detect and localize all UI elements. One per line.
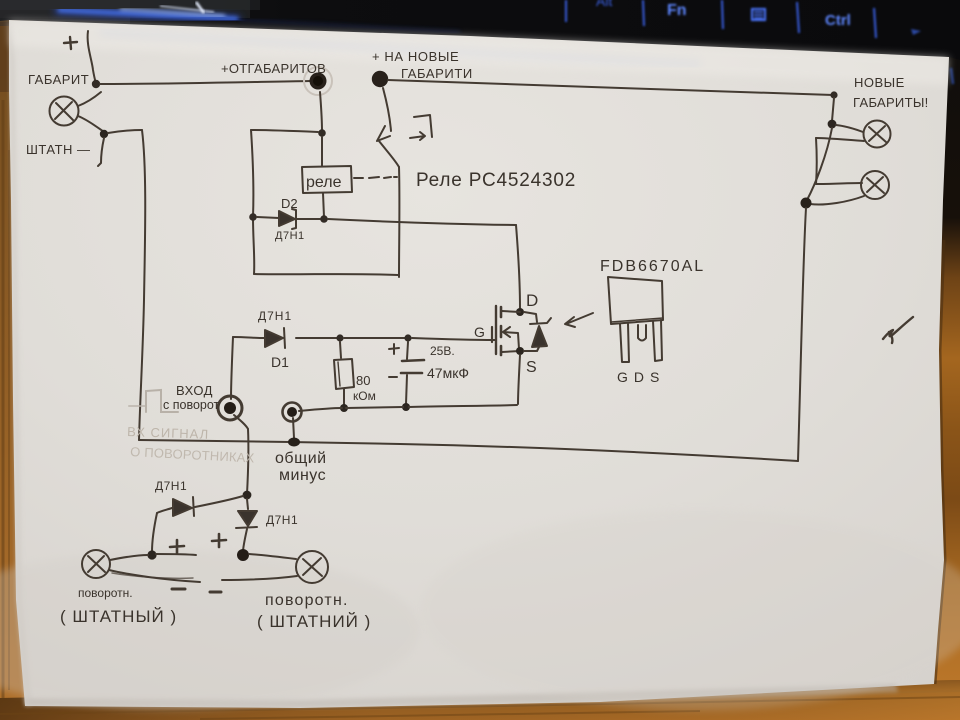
svg-text:Alt: Alt — [596, 0, 612, 9]
wire down to lamp1 junction — [832, 98, 834, 121]
node blob right feed — [801, 198, 812, 209]
wire switch vertical right — [398, 167, 400, 277]
svg-text:Ctrl: Ctrl — [825, 12, 851, 29]
wire lamp2 lead B to blob — [810, 196, 864, 205]
keyboard blue glow strip — [55, 2, 460, 32]
node D2 left junction — [249, 213, 257, 221]
plus sign left — [170, 540, 184, 553]
keyboard fabric texture left — [0, 0, 250, 18]
paper shading — [9, 20, 949, 85]
svg-text:GDS: GDS — [617, 369, 665, 385]
wire lamp1 lead B to left vertical — [816, 138, 864, 141]
node input turn signal — [218, 396, 242, 420]
wire minus ring stem — [293, 418, 294, 438]
stub below shtatn junction — [98, 138, 104, 166]
wire lower vertical to turn section — [247, 429, 248, 494]
node resistor bottom junction — [340, 404, 348, 412]
svg-text:минус: минус — [279, 467, 326, 484]
MOSFET U1 — [490, 306, 524, 355]
node common minus ring — [283, 403, 302, 422]
wire input node to lower vertical — [234, 415, 248, 429]
wire TL2 minus lead — [222, 576, 297, 580]
wire right vertical long — [798, 208, 806, 461]
wire top rail gabarit to blob — [100, 81, 310, 84]
svg-text:FDB6670AL: FDB6670AL — [600, 258, 705, 275]
svg-text:( ШТАТНИЙ ): ( ШТАТНИЙ ) — [257, 612, 371, 631]
svg-text:ШТАТН —: ШТАТН — — [26, 142, 91, 157]
switch feed from blob — [383, 88, 391, 131]
svg-text:ГАБАРИТ: ГАБАРИТ — [28, 72, 89, 87]
svg-text:Fn: Fn — [667, 2, 687, 19]
wire source down — [518, 355, 520, 404]
switch small arrow — [410, 132, 425, 140]
faint pencil text — [127, 424, 255, 466]
plus sign right — [212, 534, 226, 547]
node minus rail blob — [288, 438, 300, 447]
svg-text:с поворот: с поворот — [163, 398, 220, 412]
svg-text:поворотн.: поворотн. — [265, 592, 349, 609]
svg-text:+ОТГАБАРИТОВ: +ОТГАБАРИТОВ — [221, 61, 326, 76]
wire relay coil top lead — [321, 137, 323, 166]
wire feed slant to blob — [807, 128, 832, 200]
svg-text:Д7Н1: Д7Н1 — [155, 479, 187, 493]
annotation arrow to zener — [565, 313, 593, 327]
wire drain vertical — [516, 225, 520, 308]
svg-text:S: S — [526, 359, 537, 376]
node D2 right junction — [320, 215, 328, 223]
svg-text:НОВЫЕ: НОВЫЕ — [854, 75, 905, 90]
wood right side — [890, 50, 960, 720]
wire relay coil bottom lead — [323, 193, 324, 217]
lamp TL1 turn left — [82, 550, 110, 578]
wire from plus down to gabarit node — [88, 31, 96, 84]
svg-text:общий: общий — [275, 450, 327, 467]
capacitor C1 — [389, 342, 424, 404]
svg-text:D1: D1 — [271, 354, 289, 370]
switch arrowhead — [377, 126, 390, 141]
svg-text:Д7Н1: Д7Н1 — [266, 513, 298, 527]
wire left vertical between lamps — [815, 138, 818, 184]
wire TL1 minus lead — [109, 570, 200, 582]
wire rail cap to gate — [412, 338, 494, 340]
node cap bottom junction — [402, 403, 410, 411]
svg-text:ГАБАРИТЫ!: ГАБАРИТЫ! — [853, 95, 929, 110]
relay dashed link — [354, 177, 397, 178]
wire blob down to relay top junction — [320, 92, 322, 131]
wire plus left segment — [156, 554, 196, 555]
node shtatn junction — [100, 130, 108, 138]
wire plus right to TL2 — [249, 554, 296, 559]
diode D3 — [157, 497, 194, 516]
minus sign left — [172, 588, 185, 591]
body diode zener — [524, 312, 551, 351]
wire D2 junction to drain corner — [328, 219, 516, 225]
diode D4 vertical — [236, 499, 257, 552]
diode D2 — [257, 209, 320, 229]
wire relay loop bottom — [254, 274, 398, 275]
svg-text:G: G — [474, 324, 485, 340]
wire lamp1 lead A — [836, 125, 863, 132]
lamp TL2 turn right — [296, 551, 328, 583]
keyboard keys: separators — [566, 0, 876, 38]
svg-text:ВХ СИГНАЛ: ВХ СИГНАЛ — [127, 424, 210, 442]
wire junction to D3 cathode — [195, 496, 243, 507]
FDB6670AL package — [608, 277, 663, 362]
svg-text:Д7Н1: Д7Н1 — [275, 230, 305, 242]
lamp L1 gabarit — [50, 92, 105, 132]
faint pencil waveform — [129, 390, 178, 412]
wire bottom rail rc — [299, 405, 517, 411]
wire lamp2 lead A — [816, 183, 862, 184]
node drain dot — [516, 308, 524, 316]
wire D3 anode down — [152, 513, 157, 552]
node resistor top junction — [336, 334, 343, 341]
wire common minus rail — [139, 440, 798, 461]
svg-text:ГАБАРИТИ: ГАБАРИТИ — [401, 66, 473, 81]
svg-text:25В.: 25В. — [430, 344, 455, 358]
node cap top junction — [404, 334, 411, 341]
minus sign right — [210, 591, 221, 594]
wire shtatn junction to left vertical rail — [108, 130, 142, 133]
paper — [935, 240, 945, 684]
node turn blob — [237, 549, 249, 561]
svg-text:D: D — [526, 291, 538, 310]
switch bracket mark — [414, 115, 432, 137]
svg-text:+ НА НОВЫЕ: + НА НОВЫЕ — [372, 49, 459, 64]
node lamp1 junction — [828, 120, 837, 129]
svg-text:47мкФ: 47мкФ — [427, 365, 469, 381]
squiggle mark — [883, 317, 913, 343]
node blob na novye — [372, 71, 388, 87]
wire top right long to new lamps — [388, 80, 833, 95]
svg-text:кОм: кОм — [353, 389, 376, 403]
lamp NL2 new gabarit 2 — [861, 171, 889, 199]
wood bottom — [0, 680, 960, 720]
wire relay loop left top — [251, 130, 318, 132]
node gabarit junction — [92, 80, 100, 88]
svg-text:D2: D2 — [281, 196, 298, 211]
svg-text:Д7Н1: Д7Н1 — [258, 309, 292, 323]
switch arm — [379, 141, 399, 167]
node left lamp junction — [147, 550, 156, 559]
wire left vertical long — [139, 130, 145, 440]
wire gate rail top — [296, 337, 338, 339]
svg-text:реле: реле — [306, 174, 342, 191]
node blob ot gabaritov — [304, 67, 332, 95]
wire TL1 minus lead sketch double — [112, 573, 193, 578]
relay box — [302, 166, 352, 193]
wire relay loop left vertical — [251, 130, 254, 274]
svg-text:( ШТАТНЫЙ ): ( ШТАТНЫЙ ) — [60, 607, 177, 626]
diode D1 — [233, 328, 285, 348]
wire D1 anode corner up — [231, 337, 233, 399]
node relay top junction — [318, 129, 326, 137]
keyboard black band — [0, 0, 960, 60]
resistor R1 — [334, 342, 354, 405]
node new lamps top junction — [830, 91, 837, 98]
key legends — [596, 0, 953, 84]
svg-text:ВХОД: ВХОД — [176, 383, 213, 398]
node turn top junction — [243, 491, 252, 500]
svg-text:Реле РС4524302: Реле РС4524302 — [416, 170, 576, 191]
wire TL1 plus lead — [110, 555, 148, 560]
svg-text:поворотн.: поворотн. — [78, 586, 133, 600]
label plus supply — [64, 37, 77, 49]
svg-text:80: 80 — [356, 373, 370, 388]
wire rail resistor to cap — [344, 337, 405, 339]
lamp NL1 new gabarit 1 — [864, 121, 891, 148]
